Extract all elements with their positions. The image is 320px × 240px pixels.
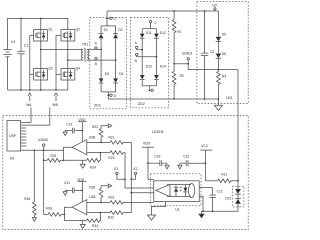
wire primary bottom — [68, 59, 81, 61]
capacitor C22 — [148, 155, 167, 167]
wire R42 column — [43, 150, 45, 214]
module box U1 dashed — [151, 174, 201, 206]
wire gate line A — [30, 35, 34, 90]
node dot R1-R2 junction — [173, 63, 175, 65]
resistor R2 — [172, 64, 184, 99]
wire top rail of H-bridge — [8, 19, 68, 50]
ground main — [198, 211, 204, 218]
wire U1 apex row — [131, 192, 154, 194]
node dot rail-C2 — [204, 10, 206, 12]
transistor Q1 — [34, 28, 53, 41]
wire return row — [107, 95, 109, 99]
diode D2 — [113, 28, 123, 38]
wire ZD2 right branch — [155, 29, 157, 86]
diode D5 — [216, 11, 227, 42]
transistor Q4 — [61, 67, 80, 80]
svg-text:WB: WB — [53, 103, 59, 107]
wire gate line B — [56, 35, 61, 90]
diode D11 — [139, 31, 151, 38]
svg-text:R42: R42 — [46, 206, 52, 210]
wire left leg Q1/Q3 — [40, 19, 42, 91]
svg-text:C31: C31 — [64, 181, 70, 185]
wire U1 right pin C11 — [199, 187, 212, 189]
supply VDD U1 — [142, 142, 154, 180]
node dot U2AD1 — [187, 63, 189, 65]
ground C12 — [178, 163, 182, 169]
terminal arrow R32 — [108, 184, 112, 188]
svg-text:VCC: VCC — [201, 144, 209, 148]
svg-text:R43: R43 — [24, 197, 30, 201]
svg-text:LD1: LD1 — [226, 96, 233, 100]
node dot rail-C1 bottom — [20, 89, 22, 91]
diode D12 — [154, 31, 166, 38]
diode D3 — [98, 72, 109, 83]
resistor R33 — [108, 211, 123, 220]
wire battery bottom — [7, 57, 9, 90]
node dot R11-LD column — [237, 180, 239, 182]
node dot R22-Vplus — [100, 142, 102, 144]
supply VDD U3A — [77, 178, 86, 202]
module box U2ZH1 — [3, 115, 248, 229]
resistor R21 — [108, 136, 123, 145]
svg-text:D5: D5 — [222, 32, 226, 36]
ground U3B — [80, 160, 85, 168]
svg-text:Q2: Q2 — [76, 28, 81, 32]
node dot R41-input — [63, 159, 65, 161]
terminal U2AD1 — [174, 52, 193, 64]
ground R43 — [32, 218, 36, 222]
node dot apex row — [130, 192, 132, 194]
wire U3A output elbow — [64, 207, 72, 220]
wire U1 internal bottom — [167, 195, 191, 197]
wire ZD1 top connector — [101, 25, 116, 27]
node dot rail-C1 — [20, 18, 22, 20]
node dot R42-input — [64, 214, 66, 216]
resistor R42 — [44, 206, 65, 216]
wire U3B Vplus row — [87, 141, 110, 143]
svg-text:R24: R24 — [90, 166, 96, 170]
svg-text:DSP: DSP — [9, 134, 17, 138]
node dot A-branch — [100, 49, 102, 51]
svg-text:C11: C11 — [217, 190, 223, 194]
svg-text:C22: C22 — [154, 155, 160, 159]
wire R23 to column — [123, 152, 125, 154]
svg-text:D4: D4 — [119, 72, 123, 76]
node dot row-R43 — [33, 149, 35, 151]
resistor R22 — [92, 125, 108, 142]
transistor Q2 — [61, 28, 80, 41]
ground C21 — [63, 131, 67, 136]
node dot row-R2 — [173, 98, 175, 100]
svg-text:Q4: Q4 — [76, 67, 81, 71]
battery V1 — [3, 40, 15, 57]
IC DSP M1 — [7, 121, 26, 161]
wire ZD2 bottom connector — [142, 85, 156, 87]
wire LD tap down right column — [237, 70, 239, 181]
wire U2AD1 to right column — [188, 64, 238, 70]
ground LD return — [214, 99, 222, 110]
terminal E2 — [131, 167, 137, 179]
svg-text:D3: D3 — [105, 72, 109, 76]
wire ZD2 top connector — [142, 28, 156, 30]
ground C31 — [63, 190, 67, 195]
terminal WB — [53, 93, 59, 108]
wire U3A Vminus row — [87, 212, 110, 214]
svg-text:D13: D13 — [146, 65, 152, 69]
wire U3B feedback row — [64, 159, 87, 161]
svg-text:U3A: U3A — [89, 195, 96, 199]
svg-text:M1: M1 — [10, 157, 15, 161]
svg-text:R3: R3 — [222, 75, 226, 79]
wire U3A feedback row — [64, 220, 86, 222]
wire R31 to U1 — [123, 201, 154, 203]
node dot rail-gateA — [29, 89, 31, 91]
node dot rail-gateB — [55, 89, 57, 91]
wire U1 internal top — [167, 184, 191, 186]
svg-text:U2ZH1: U2ZH1 — [152, 130, 164, 134]
wire ZD2 left branch — [141, 29, 143, 86]
wire WB to DSP — [21, 108, 50, 126]
wire U1 right lower pin — [199, 196, 203, 211]
wire column E2 — [130, 142, 132, 212]
svg-text:R34: R34 — [92, 224, 98, 228]
supply VDD U3B — [78, 118, 87, 142]
node dot VCC-C12 — [205, 162, 207, 164]
supply VCC — [200, 144, 212, 181]
svg-text:D14: D14 — [160, 65, 166, 69]
node dot row-R3 — [218, 98, 220, 100]
opto LED down U1 — [180, 185, 188, 197]
svg-text:D1: D1 — [104, 28, 108, 32]
resistor R24 — [87, 153, 101, 170]
capacitor C31 — [64, 181, 82, 193]
node dot D6-R3 tap — [218, 69, 220, 71]
svg-text:U2AD1: U2AD1 — [182, 52, 193, 56]
node dot row-R42col — [43, 149, 45, 151]
node dot legA-primary — [40, 49, 42, 51]
wire ZD1 left branch — [100, 26, 102, 92]
node dot R24-Vminus — [100, 152, 102, 154]
node dot gnd-C11 — [212, 210, 214, 212]
svg-text:C1: C1 — [24, 44, 29, 48]
svg-text:E2: E2 — [134, 167, 138, 171]
node dot row-C2 — [204, 98, 206, 100]
svg-text:WA: WA — [26, 103, 32, 107]
node B circle ZD2 — [135, 53, 157, 63]
wire DSP output row — [21, 149, 64, 151]
terminal U3AD0 — [38, 138, 49, 150]
wire R21 to column — [123, 141, 131, 143]
terminal arrow R22 — [108, 124, 112, 128]
node dot B ZD2 — [156, 56, 158, 58]
node B circle ZD1 — [95, 57, 98, 65]
diode D1 — [98, 28, 108, 38]
op-amp U3B — [72, 135, 96, 155]
svg-text:V1: V1 — [11, 40, 16, 44]
node dot A ZD2 — [141, 49, 143, 51]
node D circle ZD2 — [149, 86, 154, 92]
wire ZD1 bottom connector — [101, 91, 116, 93]
resistor R23 — [108, 151, 123, 160]
node dot legB-primary — [67, 59, 69, 61]
svg-text:TR1: TR1 — [82, 43, 88, 47]
wire U3B output elbow — [64, 147, 73, 160]
node A circle ZD2 — [135, 41, 143, 50]
node dot rail-Q1 — [40, 18, 42, 20]
wire column E1 — [125, 153, 154, 188]
svg-text:U1: U1 — [175, 208, 179, 212]
node dot E1 tap — [124, 178, 126, 180]
node dot C ZD1 — [106, 17, 108, 19]
capacitor C2 — [201, 11, 214, 99]
capacitor C11 — [209, 188, 222, 212]
wire bottom rail — [8, 89, 68, 91]
svg-text:Q3: Q3 — [48, 67, 53, 71]
svg-text:R33: R33 — [108, 215, 114, 219]
node dot B-branch — [115, 59, 117, 61]
node C circle ZD1 — [107, 17, 117, 21]
svg-text:R32: R32 — [89, 185, 95, 189]
resistor R34 — [87, 213, 101, 228]
transistor Q3 — [34, 67, 53, 80]
terminal U2 — [212, 4, 217, 11]
wire analog ground row — [202, 210, 239, 212]
svg-text:C21: C21 — [66, 122, 72, 126]
svg-text:R2: R2 — [180, 74, 184, 78]
diode D14 — [154, 65, 166, 80]
wire primary top — [41, 48, 81, 50]
wire secondary top to ZD1 — [89, 48, 101, 50]
node dot VDD-C21 — [81, 130, 83, 132]
svg-text:R22: R22 — [92, 125, 98, 129]
svg-text:D21: D21 — [225, 197, 231, 201]
wire U3A Vplus row — [87, 201, 110, 203]
resistor R1 — [172, 11, 181, 64]
capacitor C21 — [65, 122, 82, 133]
module box ZD2 — [131, 17, 169, 107]
wire R33 to column — [123, 212, 131, 214]
wire right leg Q2/Q4 — [67, 31, 69, 90]
resistor R41 — [44, 154, 64, 162]
op-amp U3A — [72, 195, 96, 215]
node dot VDD-C22 — [147, 162, 149, 164]
ground U1 — [148, 215, 156, 220]
svg-text:R21: R21 — [108, 136, 114, 140]
node dot gnd-pin — [202, 210, 204, 212]
capacitor C12 — [180, 155, 206, 167]
resistor R43 — [24, 150, 36, 217]
node C circle ZD2 — [149, 21, 157, 29]
wire U3B Vminus row — [87, 152, 110, 154]
ground C22 — [165, 163, 169, 169]
phototransistor U1 — [189, 184, 195, 198]
resistor R32 — [89, 185, 108, 202]
node dot R32-Vplus — [100, 202, 102, 204]
resistor R3 — [217, 58, 227, 99]
diode D4 — [113, 72, 124, 83]
ground U3A — [80, 221, 85, 229]
svg-text:C12: C12 — [183, 155, 189, 159]
transformer TR1 — [81, 43, 89, 62]
svg-text:R23: R23 — [108, 156, 114, 160]
svg-text:R41: R41 — [51, 154, 57, 158]
svg-text:D11: D11 — [146, 31, 152, 35]
opto LED up U1 — [174, 185, 178, 197]
node dot R41-column — [43, 159, 45, 161]
svg-text:U2: U2 — [212, 4, 217, 8]
svg-text:D12: D12 — [160, 31, 166, 35]
node dot rail-R1 — [173, 10, 175, 12]
node A circle ZD1 — [95, 42, 98, 50]
resistor R11 — [205, 172, 238, 182]
comparator triangle U1 — [156, 184, 170, 196]
svg-text:U3AD0: U3AD0 — [38, 138, 49, 142]
diode D6 — [216, 42, 227, 59]
svg-text:ZD1: ZD1 — [94, 103, 101, 107]
module box LD1 — [197, 2, 248, 104]
node dot D stub — [107, 94, 109, 96]
svg-text:R31: R31 — [108, 196, 114, 200]
svg-text:D6: D6 — [222, 52, 226, 56]
diode pair D21 — [225, 181, 244, 212]
terminal E1 — [114, 167, 125, 179]
svg-text:Q1: Q1 — [48, 28, 53, 32]
svg-text:R11: R11 — [221, 172, 227, 176]
svg-text:ZD2: ZD2 — [138, 102, 145, 106]
node dot rail-Q3 bottom — [40, 89, 42, 91]
svg-text:D2: D2 — [118, 28, 122, 32]
terminal WA — [26, 93, 32, 108]
svg-text:VDD: VDD — [143, 142, 151, 146]
wire ZD1 C drop from rail — [106, 11, 108, 26]
resistor R31 — [108, 196, 123, 205]
diode D13 — [139, 65, 152, 80]
svg-text:C2: C2 — [210, 50, 214, 54]
node dot VDD-C31 — [81, 190, 83, 192]
svg-text:R1: R1 — [177, 30, 181, 34]
IC U1 body — [154, 181, 199, 212]
svg-text:E1: E1 — [114, 167, 118, 171]
wire WA to DSP — [21, 108, 31, 123]
svg-text:U3B: U3B — [89, 135, 96, 139]
node D circle ZD1 — [108, 92, 116, 98]
node dot R34-Vminus — [100, 212, 102, 214]
capacitor C1 — [17, 19, 28, 91]
node dot E2 tap — [130, 178, 132, 180]
wire DC rail U2 — [107, 10, 218, 12]
wire secondary bottom to ZD1 — [89, 59, 115, 61]
wire U1 bottom pin to ground — [152, 202, 166, 215]
module box ZD1 — [90, 17, 127, 108]
wire ZD1 right branch — [115, 26, 117, 92]
